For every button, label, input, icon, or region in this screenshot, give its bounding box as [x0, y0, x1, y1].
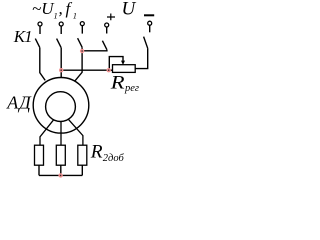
contact K1 phase 3 terminal circle	[80, 22, 84, 26]
plus sign	[107, 14, 115, 21]
minus sign	[144, 14, 154, 16]
svg-text:1: 1	[73, 11, 77, 21]
wire phase 2 junction to rheostat left	[61, 69, 112, 71]
contact DC minus blade	[144, 37, 148, 49]
svg-text:U: U	[122, 0, 137, 20]
rotor bottom bus wire	[39, 174, 82, 176]
label R_2dob	[90, 142, 125, 164]
svg-text:,: ,	[59, 0, 63, 18]
rotor lead right	[68, 119, 83, 146]
resistor 3 bottom lead	[81, 165, 83, 175]
svg-text:К1: К1	[13, 27, 32, 46]
contact K1 phase 1 blade	[35, 39, 40, 48]
wire phase 1 to stator	[40, 48, 45, 81]
motor stator outer circle	[33, 78, 89, 134]
rotor lead middle	[60, 122, 62, 146]
svg-text:2доб: 2доб	[103, 153, 125, 164]
rheostat R_reg body	[113, 65, 136, 73]
contact K1 phase 2 stub wire	[60, 26, 62, 34]
contact DC plus blade	[102, 41, 107, 50]
contact K1 phase 1 terminal circle	[38, 22, 42, 26]
contact DC plus terminal circle	[105, 23, 109, 27]
contact DC minus stub wire	[149, 25, 151, 32]
svg-text:R: R	[110, 73, 125, 94]
rotor lead left	[40, 119, 54, 145]
svg-text:1: 1	[54, 11, 58, 21]
junction node phase 2 / rheostat wire	[59, 68, 63, 72]
resistor R2dob 2 body	[56, 145, 65, 165]
contact K1 phase 3 stub wire	[81, 26, 83, 34]
resistor R2dob 1 body	[35, 145, 44, 165]
svg-text:рег: рег	[124, 83, 139, 94]
contact K1 phase 1 stub wire	[39, 26, 41, 34]
motor rotor inner circle	[46, 92, 76, 122]
contact K1 phase 2 terminal circle	[59, 22, 63, 26]
wire phase 2 to stator	[60, 48, 62, 78]
contact K1 phase 2 blade	[57, 39, 62, 48]
junction node rotor star point	[58, 173, 62, 177]
svg-text:R: R	[90, 142, 103, 163]
contact DC minus terminal circle	[148, 21, 152, 25]
junction node phase 3 / DC plus	[80, 49, 84, 53]
junction node wiper / rheostat left	[107, 68, 111, 72]
wire DC minus down to rheostat right	[135, 48, 148, 68]
wiper arrowhead	[121, 61, 125, 65]
resistor 1 bottom lead	[38, 165, 40, 175]
svg-text:~U: ~U	[32, 0, 55, 18]
svg-text:f: f	[66, 0, 73, 18]
contact DC plus stub wire	[106, 27, 108, 33]
wire phase 3 to stator	[74, 47, 82, 81]
wire DC plus to phase 3 junction	[82, 50, 107, 51]
contact K1 phase 3 blade	[78, 38, 83, 47]
label R_reg	[110, 73, 139, 95]
wire rheostat wiper	[109, 57, 123, 71]
resistor 2 bottom lead	[60, 165, 62, 175]
svg-text:АД: АД	[6, 93, 32, 113]
label ~U1,f1 (AC supply)	[32, 0, 77, 21]
resistor R2dob 3 body	[78, 145, 87, 165]
